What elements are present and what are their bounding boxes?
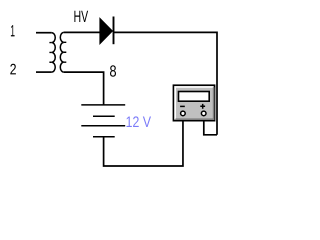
wire battery bottom to meter minus probe xyxy=(104,121,183,166)
wire pin1 to primary top xyxy=(36,32,52,34)
node 1 label xyxy=(11,25,15,36)
wire corner to meter plus probe xyxy=(204,121,217,135)
wire diode cathode to right side xyxy=(114,32,218,134)
multimeter display xyxy=(179,92,210,102)
diode D1 cathode bar xyxy=(113,17,115,45)
multimeter plus terminal xyxy=(201,111,206,116)
battery V1 plate short bottom xyxy=(93,136,115,138)
multimeter bevel shadow xyxy=(176,87,214,119)
node 2 label xyxy=(10,64,16,75)
battery value label 12 V xyxy=(127,116,152,127)
battery V1 plate long xyxy=(81,125,125,127)
transformer T1 primary winding xyxy=(52,33,55,72)
net HV label xyxy=(74,11,88,22)
multimeter plus sign xyxy=(200,104,205,109)
multimeter minus terminal xyxy=(181,111,186,116)
wire pin2 to primary bottom xyxy=(36,71,52,73)
battery V1 plate long top xyxy=(81,104,125,106)
transformer T1 secondary winding xyxy=(60,32,64,72)
multimeter M1 body xyxy=(173,85,214,121)
diode D1 triangle xyxy=(100,18,113,44)
primary cusp ticks xyxy=(49,43,51,63)
wire secondary top to diode anode xyxy=(64,31,100,33)
node 8 label xyxy=(110,65,116,76)
secondary cusp ticks xyxy=(64,42,66,62)
wire node 8: secondary bottom to battery top xyxy=(64,72,104,105)
battery V1 plate short xyxy=(93,115,115,117)
multimeter bevel highlight xyxy=(175,87,213,119)
multimeter minus sign xyxy=(180,105,185,107)
